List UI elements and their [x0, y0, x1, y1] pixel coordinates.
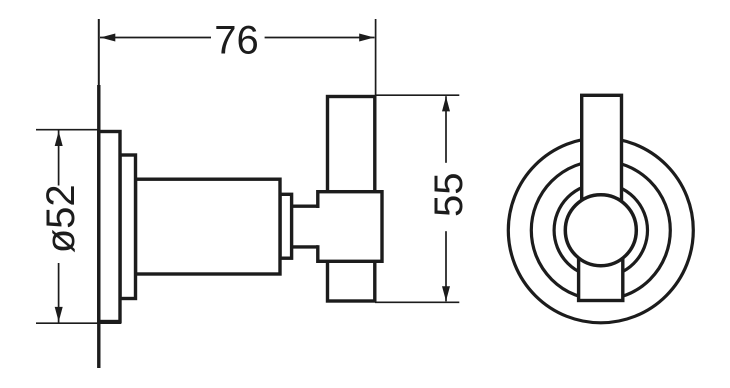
- svg-text:ø52: ø52: [39, 184, 83, 253]
- svg-text:55: 55: [427, 172, 471, 217]
- svg-text:76: 76: [214, 18, 259, 62]
